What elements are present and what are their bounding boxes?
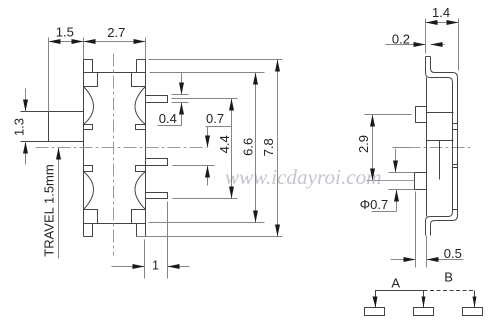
phi dim upper arrow — [395, 149, 397, 173]
0.4 arrow upper — [181, 73, 183, 95]
svg-text:1.5: 1.5 — [56, 25, 74, 40]
tab3 bottom ext — [173, 198, 238, 200]
pad 2 — [414, 308, 434, 316]
svg-text:2.7: 2.7 — [107, 25, 125, 40]
cover tick 5 — [453, 167, 458, 169]
A bracket line — [376, 291, 424, 308]
ext 1 right — [167, 202, 169, 279]
bottom-left leg — [84, 224, 93, 237]
dim 1 right arrow — [168, 266, 190, 268]
strip top tip — [426, 56, 431, 58]
A arrowhead left — [373, 297, 378, 308]
svg-text:0.4: 0.4 — [159, 111, 177, 126]
0.4 ext lower — [172, 102, 189, 104]
0.7 arrow to centerline — [207, 127, 209, 148]
horizontal centerline side view — [408, 147, 472, 149]
contact arc top-left — [84, 87, 94, 125]
foot tab bottom-right — [136, 166, 146, 172]
terminal tab 2 — [146, 159, 168, 166]
contact arc bottom-left — [84, 172, 94, 210]
B arrowhead — [473, 297, 477, 308]
0.7 underline — [206, 126, 232, 128]
dim line 4.4 — [231, 99, 233, 199]
bottom-left step — [84, 210, 98, 224]
side body left edge — [426, 78, 428, 217]
ext 1 left — [144, 240, 146, 279]
contact arc top-right — [135, 87, 146, 125]
phi lower arrow — [396, 190, 398, 212]
horizontal centerline front view — [36, 147, 207, 149]
internal line 2 — [427, 112, 454, 114]
dim 1 left arrow — [112, 266, 145, 268]
dim line 6.6 — [255, 73, 257, 223]
svg-text:Φ0.7: Φ0.7 — [360, 197, 388, 212]
svg-text:0.5: 0.5 — [444, 246, 462, 261]
front view body left edge — [83, 60, 85, 237]
top-left step — [84, 73, 98, 87]
dim line 2.7 — [84, 41, 146, 43]
dim line 1.4 — [426, 22, 459, 24]
B right drop — [474, 291, 476, 308]
pad 3 — [463, 308, 483, 316]
dim line 1.5 — [49, 41, 84, 43]
B dashed line — [424, 290, 475, 292]
dim 0.2 left arrow — [386, 44, 426, 46]
cover tick 4 — [453, 164, 458, 166]
dim 0.2 right arrow — [431, 44, 445, 46]
svg-text:6.6: 6.6 — [241, 138, 256, 156]
top-left tab — [84, 60, 93, 73]
ext 7.8 top — [149, 59, 283, 61]
dim 0.5 right arrow — [427, 259, 464, 261]
svg-text:2.9: 2.9 — [356, 135, 371, 153]
cover sheet inner path — [431, 57, 458, 236]
dim 1.3 upper — [25, 89, 27, 112]
phi ext upper — [389, 172, 415, 174]
tab2 bottom ext — [173, 165, 215, 167]
svg-text:www.icdayroi.com: www.icdayroi.com — [225, 165, 382, 189]
dim 1.3 lower — [25, 142, 27, 165]
bottom-right step — [132, 210, 146, 224]
ext 6.6 bottom — [149, 222, 265, 224]
centerlines — [36, 54, 472, 256]
contact arc bottom-right — [135, 172, 146, 210]
ext 6.6 top — [150, 72, 265, 74]
internal line 3 — [427, 140, 454, 142]
A arrowhead right — [422, 297, 426, 308]
svg-text:0.7: 0.7 — [206, 111, 224, 126]
front view body right edge — [145, 60, 147, 237]
internal vline — [439, 141, 441, 180]
tab1 mid ext long — [172, 98, 238, 100]
ext 0.5 right — [426, 236, 428, 268]
svg-text:A: A — [391, 276, 400, 291]
cover sheet outer path — [426, 57, 453, 236]
lever bottom ext — [21, 141, 49, 143]
top-right tab — [136, 60, 138, 73]
ext line 1.5/2.7 shared — [83, 38, 85, 60]
bottom-right leg — [137, 224, 146, 237]
top-right step — [132, 73, 146, 87]
ext 7.8 bottom — [137, 236, 283, 238]
phi ext lower — [389, 189, 415, 191]
ext line 2.7 right — [145, 38, 147, 60]
ext line 1.5 left — [48, 38, 50, 112]
svg-text:1: 1 — [152, 258, 159, 272]
0.4 ext upper — [172, 94, 189, 96]
0.4 underline — [158, 125, 182, 127]
side pin — [415, 173, 427, 190]
svg-text:1.4: 1.4 — [432, 5, 450, 20]
centerline ext short — [393, 147, 410, 149]
front view body top edge — [84, 72, 146, 74]
lever top edge — [21, 111, 84, 113]
foot tab top-right — [136, 125, 146, 130]
ext 0.5 left — [415, 192, 417, 268]
pad 1 — [365, 308, 385, 316]
dim line 7.8 — [277, 60, 279, 237]
terminal tab 1 — [146, 96, 168, 103]
front view body bottom edge — [84, 223, 146, 225]
terminal tab 3 — [146, 193, 168, 199]
svg-text:0.2: 0.2 — [392, 32, 410, 47]
svg-text:7.8: 7.8 — [261, 138, 276, 156]
svg-text:B: B — [444, 270, 453, 285]
cover tick 6 — [453, 209, 458, 211]
svg-text:4.4: 4.4 — [217, 135, 232, 153]
foot tab top-left — [84, 125, 93, 130]
travel leader — [58, 148, 60, 259]
0.4 arrow lower — [181, 103, 183, 126]
dim line 2.9 — [372, 115, 374, 181]
dim 0.5 left arrow — [391, 259, 416, 261]
ext 1.4 right — [458, 19, 460, 71]
foot tab bottom-left — [84, 166, 93, 172]
cover tick 3 — [453, 129, 458, 131]
lever knob — [49, 112, 84, 142]
svg-text:1.3: 1.3 — [12, 118, 27, 136]
cover tick 2 — [453, 123, 458, 125]
vertical centerline front view — [113, 54, 115, 256]
ext 1.4 left — [425, 19, 427, 54]
phi underline — [372, 211, 397, 213]
svg-text:TRAVEL 1.5mm: TRAVEL 1.5mm — [42, 164, 57, 256]
pin center ref line — [367, 180, 415, 182]
boss bump — [416, 107, 427, 123]
ext 2.9 top — [365, 114, 412, 116]
0.7 arrow lower — [207, 166, 209, 186]
